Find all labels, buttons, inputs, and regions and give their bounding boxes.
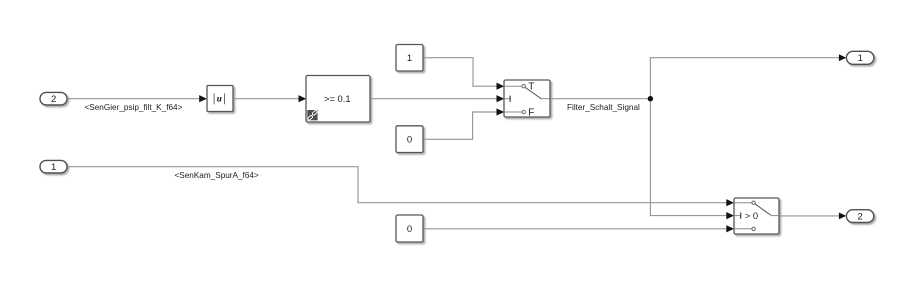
- outport Out2: [846, 210, 873, 223]
- svg-text:> 0: > 0: [745, 210, 758, 221]
- wire Const1 to Switch1 T input: [423, 58, 504, 90]
- outport Out1: [846, 51, 874, 64]
- svg-text:0: 0: [407, 135, 412, 146]
- switch block Switch2: [734, 198, 779, 234]
- svg-text:u: u: [217, 93, 222, 103]
- constant 0 (lower): [396, 215, 423, 242]
- wire Const0 to Switch1 F input: [423, 108, 504, 139]
- constant 0 (upper): [396, 126, 423, 153]
- inport In2: [40, 92, 67, 105]
- wire Abs to Compare: [233, 95, 306, 102]
- svg-text:1: 1: [407, 53, 412, 64]
- inport In1: [40, 160, 67, 173]
- constant 1: [396, 45, 423, 72]
- wire Switch1 to junction: [550, 98, 650, 100]
- wire Const0b to Switch2 bottom: [423, 225, 734, 232]
- library link badge: [307, 110, 317, 120]
- switch block Switch1: [504, 80, 550, 119]
- svg-text:1: 1: [51, 162, 56, 173]
- wire In2 to Abs: [67, 95, 207, 102]
- compare block >= 0.1: [306, 76, 370, 123]
- svg-text:Filter_Schalt_Signal: Filter_Schalt_Signal: [567, 103, 640, 112]
- svg-text:2: 2: [858, 212, 863, 223]
- svg-text:0: 0: [407, 224, 412, 235]
- svg-text:<SenKam_SpurA_f64>: <SenKam_SpurA_f64>: [175, 171, 259, 180]
- wire Compare to Switch1 middle: [370, 95, 504, 102]
- svg-text:>= 0.1: >= 0.1: [324, 93, 351, 104]
- abs block U_Abs: [207, 86, 233, 112]
- svg-text:<SenGier_psip_filt_K_f64>: <SenGier_psip_filt_K_f64>: [85, 103, 183, 112]
- wire junction down to Switch2 middle: [650, 99, 734, 220]
- wire In1 to Switch2 top: [67, 167, 734, 207]
- wire junction up to Out1: [650, 54, 846, 98]
- wire Switch2 to Out2: [779, 213, 846, 220]
- svg-text:F: F: [528, 108, 534, 119]
- svg-text:2: 2: [51, 94, 56, 105]
- junction node: [648, 96, 653, 101]
- svg-text:1: 1: [858, 53, 863, 64]
